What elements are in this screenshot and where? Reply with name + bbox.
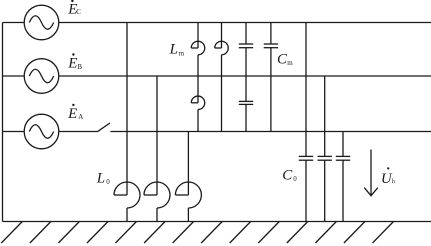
label Lm [169,42,185,58]
inductor L0 coil 1 [114,182,140,208]
inductor L0 coil 3 [175,182,201,208]
wire: vertical x=198 phase C to Lm coil 1 [197,23,199,49]
label Uh [381,167,395,187]
AC source E_B [24,59,59,94]
svg-text:B: B [77,63,82,71]
ground line [3,221,431,223]
wire: vertical x=221.5 phase C to Lm coil 2 [221,23,223,49]
wire: left vertical bus [2,23,4,222]
label E_C [67,0,81,17]
wire: vertical x=198 phase B to Lm coil 3 [197,76,199,103]
wire: C0b to ground [324,160,326,221]
AC source E_A [24,114,59,149]
label E_A [67,104,83,122]
wire: Lm coil 3 tail to phase A [197,110,199,132]
svg-text:E: E [67,55,77,71]
wire: L0 coil 3 tail to ground [187,208,189,222]
wire: C0c to ground [342,160,344,221]
wire: vertical drop x=188.5 from phase A to L0 coil 3 [187,132,189,196]
label E_B [67,53,82,71]
switch S blade on phase A [97,123,110,132]
label C0 [282,168,297,184]
wire: Lm coil 2 tail down to phase A [221,55,223,132]
inductor Lm coil 3 (between B and A) [191,96,205,110]
AC source E_C [24,5,59,40]
wire: phase A right segment [110,131,431,133]
wire: vertical x=343 phase A to capacitor C0c [342,132,344,157]
wire: vertical x=270.9 phase C to capacitor Cm2 [270,23,272,45]
label Cm [277,51,293,67]
svg-text:0: 0 [106,178,110,186]
wire: vertical x=246 phase C to capacitor Cm1 [245,23,247,45]
inductor Lm coil 2 (between C and B) [215,41,229,54]
wire: Lm coil 1 tail to phase B [197,55,199,76]
svg-text:A: A [78,113,83,121]
svg-text:m: m [179,49,185,57]
wire: Cm2 down to phase A [270,48,272,132]
wire: L0 coil 1 tail to ground [126,208,128,222]
capacitor Cm1 (between C and B) [239,44,253,48]
svg-text:h: h [392,179,395,185]
capacitor C0a [299,156,313,160]
wire: vertical drop x=127 from phase C to L0 coil 1 [126,23,128,196]
capacitor Cm2 (between C and B) [264,44,278,48]
wire: vertical drop x=157.8 from phase B to L0 coil 2 [156,76,158,195]
svg-text:0: 0 [293,175,297,183]
wire: C0a to ground [305,160,307,221]
capacitor Cm3 (between B and A) [239,101,253,104]
wire: phase C horizontal (y=22.5) [3,22,431,24]
wire: L0 coil 2 tail to ground [156,208,158,222]
inductor Lm coil 1 (between C and B) [191,41,205,54]
inductor L0 coil 2 [144,182,170,208]
wire: phase B horizontal (y=76) [3,75,431,77]
capacitor C0c [336,156,350,160]
svg-text:C: C [282,168,293,184]
svg-text:m: m [287,59,293,67]
wire: Cm3 to phase A [245,104,247,131]
svg-text:L: L [169,42,178,58]
svg-text:E: E [67,106,77,122]
wire: phase A left segment [3,131,98,133]
svg-text:C: C [76,8,81,16]
wire: vertical x=324.7 phase B to capacitor C0b [324,76,326,156]
arrow Uh (voltage arrow pointing down) [364,150,378,196]
label L0 [96,170,111,186]
capacitor C0b [318,156,332,160]
ground hatching [1,222,393,244]
wire: vertical x=306 phase C to capacitor C0a [305,23,307,157]
svg-text:L: L [96,170,105,186]
wire: Cm1 to capacitor Cm3 [245,48,247,102]
